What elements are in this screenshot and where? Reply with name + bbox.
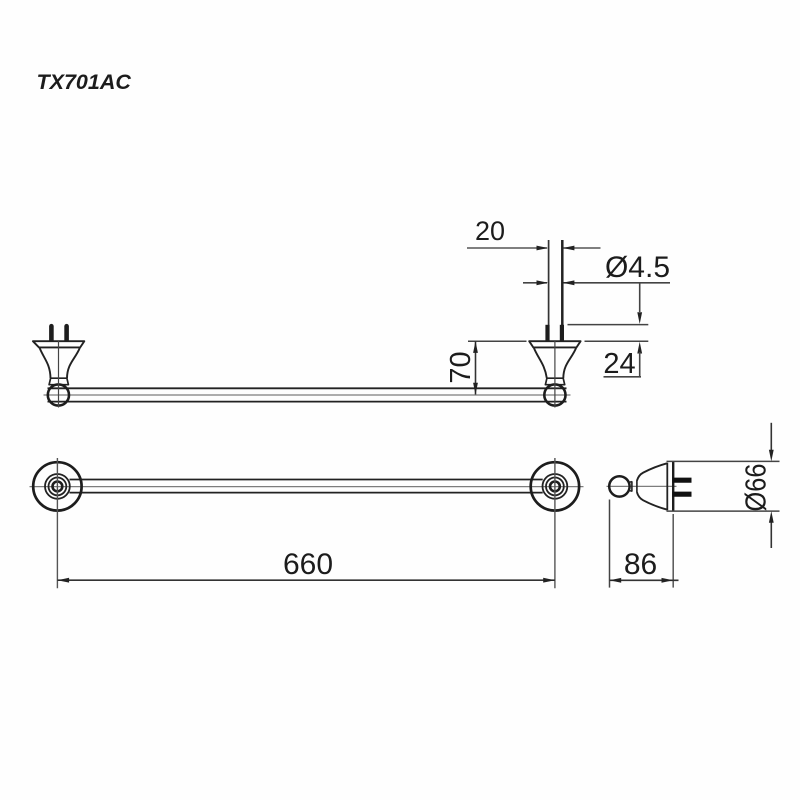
dim 4.5 line right segment bbox=[564, 282, 671, 284]
right flange middle ring bbox=[543, 474, 568, 499]
dim 86 line bbox=[610, 579, 679, 581]
right bracket vertical centerline bbox=[554, 341, 556, 408]
dim 4.5 leader vertical bbox=[639, 283, 641, 312]
dim 86 right arrow bbox=[662, 578, 674, 583]
dim 24 vertical line bbox=[639, 352, 641, 377]
left flange vertical centerline + 660 extension bbox=[56, 458, 58, 588]
right flange center boss bbox=[550, 482, 560, 492]
side view plate face line bbox=[672, 461, 674, 511]
left bracket pin 2 bbox=[64, 326, 69, 341]
dim 24 lower reference line (cap top extension) bbox=[585, 340, 649, 342]
right bracket pin 1 thick lower part bbox=[545, 325, 549, 342]
left bracket neck ring bbox=[49, 378, 68, 385]
lower bar horizontal centerline bbox=[30, 486, 584, 488]
dim 24 upper reference line bbox=[568, 324, 649, 326]
dim 4.5 arrow right-pointing bbox=[537, 280, 549, 285]
dim 66 vertical line lower bbox=[770, 523, 772, 549]
side view pin lower bbox=[673, 492, 692, 497]
side view neck line 1 bbox=[631, 481, 633, 491]
left flange outer circle bbox=[33, 462, 81, 510]
right flange vertical centerline + 660 extension bbox=[554, 458, 556, 588]
right bracket pin 2 thick lower part bbox=[560, 325, 564, 342]
right bracket bell right side bbox=[563, 348, 576, 378]
side view ball bbox=[609, 476, 629, 496]
dim 66 up arrow bbox=[769, 511, 774, 523]
dim 86 left arrow bbox=[610, 578, 622, 583]
side view horizontal centerline bbox=[607, 485, 677, 487]
dim 66 down arrow bbox=[769, 450, 774, 462]
side view neck top connect bbox=[629, 482, 632, 483]
left flange center boss bbox=[53, 482, 63, 492]
dim 4.5 line left segment bbox=[523, 282, 547, 284]
side view neck bottom connect bbox=[629, 490, 632, 491]
dim 70 up arrow bbox=[473, 341, 478, 353]
dim 24 up arrow bbox=[637, 342, 642, 354]
svg-text:Ø4.5: Ø4.5 bbox=[605, 251, 670, 284]
left bracket vertical centerline bbox=[58, 341, 60, 408]
dim 20 arrow right-pointing bbox=[537, 246, 549, 251]
right flange outer circle bbox=[531, 462, 579, 510]
wire: bar centerline bbox=[44, 394, 571, 396]
dim 66 lower extension line bbox=[667, 510, 780, 512]
left bracket cap plate bbox=[33, 341, 84, 347]
wire: bar bottom edge bbox=[48, 401, 567, 403]
side view bell top curve bbox=[637, 463, 667, 481]
side view pin upper bbox=[673, 478, 692, 483]
wire: bar top edge bbox=[48, 387, 567, 389]
svg-text:TX701AC: TX701AC bbox=[37, 70, 132, 94]
dim 86 right extension line bbox=[672, 514, 674, 588]
dim 66 vertical line upper bbox=[770, 423, 772, 450]
dim 660 right arrow bbox=[543, 578, 555, 583]
svg-text:Ø66: Ø66 bbox=[741, 464, 773, 512]
right bracket cap plate bbox=[529, 341, 580, 347]
dim 660 left arrow bbox=[57, 578, 69, 583]
dim 70 extension line at cap top bbox=[468, 340, 527, 342]
left bracket pin 1 bbox=[49, 326, 54, 341]
right bracket extension/pin line left bbox=[548, 240, 550, 341]
left bracket bell right side bbox=[67, 348, 80, 378]
svg-text:86: 86 bbox=[624, 548, 657, 581]
right bracket extension/pin line right bbox=[561, 240, 564, 341]
dim 86 left extension line bbox=[609, 500, 611, 588]
dim 20 arrow left-pointing bbox=[563, 246, 575, 251]
dim 20 line left segment bbox=[467, 247, 547, 249]
dim 4.5 leader down arrow bbox=[637, 312, 642, 324]
dim 660 line bbox=[57, 579, 555, 581]
dim 70 vertical line bbox=[475, 341, 477, 394]
left flange middle ring bbox=[45, 474, 70, 499]
right bracket neck ring bbox=[545, 378, 564, 385]
svg-text:20: 20 bbox=[475, 216, 505, 246]
lower bar top edge bbox=[70, 479, 543, 481]
side view bell bottom curve bbox=[637, 492, 667, 510]
dim 4.5 arrow left-pointing bbox=[563, 280, 575, 285]
right bracket ball bbox=[544, 384, 565, 405]
dim 70 down arrow bbox=[473, 383, 478, 395]
left flange inner ring bbox=[49, 478, 67, 496]
dim 66 upper extension line bbox=[667, 460, 780, 462]
right flange inner ring bbox=[546, 478, 564, 496]
left bracket ball bbox=[48, 384, 69, 405]
svg-text:660: 660 bbox=[283, 548, 333, 581]
right bracket bell left side bbox=[534, 348, 547, 378]
svg-text:70: 70 bbox=[445, 351, 477, 383]
left bracket bell left side bbox=[40, 348, 51, 378]
svg-text:24: 24 bbox=[603, 348, 635, 380]
side view bell rim line bbox=[666, 463, 668, 511]
lower bar bottom edge bbox=[70, 492, 543, 494]
dim 20 line right segment bbox=[564, 247, 601, 249]
side view neck line 2 bbox=[636, 481, 638, 493]
dim 24 tail underline bbox=[604, 376, 642, 378]
